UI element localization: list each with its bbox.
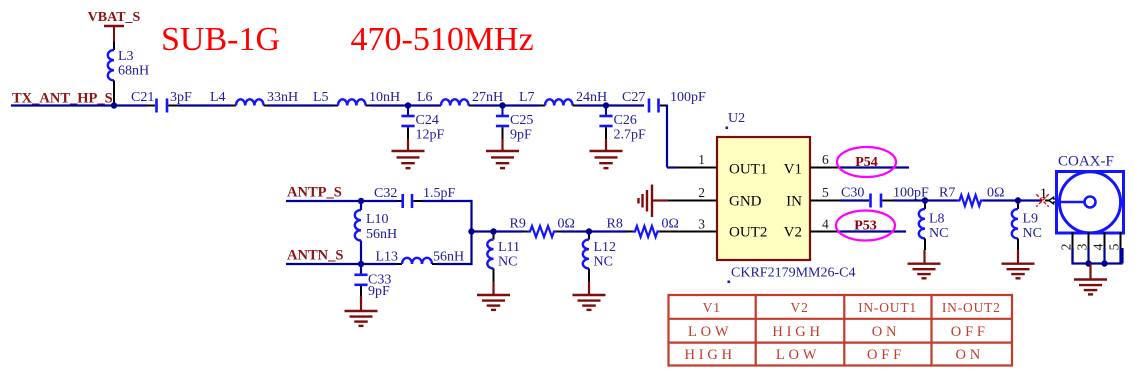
wire pin2 — [668, 200, 717, 202]
wire — [113, 42, 115, 50]
svg-text:VBAT_S: VBAT_S — [88, 10, 141, 25]
junction node C25 — [499, 102, 505, 108]
svg-text:SUB-1G: SUB-1G — [161, 21, 280, 58]
wire — [178, 104, 231, 106]
svg-text:L5: L5 — [313, 90, 329, 105]
svg-text:L9: L9 — [1023, 212, 1039, 227]
inductor L9 NC — [1017, 201, 1019, 205]
wire pin5 — [810, 200, 840, 202]
svg-text:470-510MHz: 470-510MHz — [351, 21, 534, 58]
svg-text:12pF: 12pF — [416, 127, 445, 142]
svg-text:NC: NC — [929, 226, 948, 241]
svg-text:68nH: 68nH — [118, 64, 149, 79]
coax pin 3 — [1088, 232, 1090, 248]
inductor L10 56nH — [360, 201, 362, 210]
wire — [473, 104, 540, 106]
junction ANTN node — [358, 261, 364, 267]
svg-text:0Ω: 0Ω — [558, 217, 575, 232]
svg-text:5: 5 — [822, 185, 829, 200]
svg-text:V1: V1 — [784, 162, 802, 178]
capacitor C25 — [496, 115, 509, 118]
svg-text:4: 4 — [1091, 243, 1106, 250]
svg-text:0Ω: 0Ω — [662, 217, 679, 232]
ground L9 — [1017, 250, 1019, 264]
ground L12 — [588, 282, 590, 296]
svg-text:C32: C32 — [374, 186, 397, 201]
ground coax — [1089, 264, 1091, 280]
inductor L8 NC — [924, 201, 926, 205]
wire — [605, 106, 607, 116]
junction L8 node — [922, 197, 928, 203]
op-amp U2 CKRF2179MM26-C4 — [717, 137, 810, 260]
svg-text:C25: C25 — [510, 113, 533, 128]
svg-text:100pF: 100pF — [670, 90, 706, 105]
svg-text:P54: P54 — [855, 155, 878, 170]
no-ERC marker (red X) — [1036, 194, 1048, 206]
svg-text:C24: C24 — [416, 113, 439, 128]
wire — [407, 106, 409, 116]
svg-text:27nH: 27nH — [472, 90, 503, 105]
svg-text:C27: C27 — [622, 90, 645, 105]
svg-text:L12: L12 — [594, 240, 617, 255]
svg-text:5: 5 — [1107, 243, 1122, 250]
table V1/V2 truth table — [669, 295, 1013, 366]
ground L8 — [923, 250, 925, 264]
wire pin4 — [810, 231, 840, 233]
svg-text:ANTN_S: ANTN_S — [287, 248, 343, 264]
svg-text:2.7pF: 2.7pF — [614, 127, 647, 142]
svg-text:R8: R8 — [607, 217, 623, 232]
svg-text:NC: NC — [1023, 226, 1042, 241]
svg-text:IN: IN — [786, 194, 802, 210]
svg-text:OFF: OFF — [951, 324, 989, 340]
wire — [502, 106, 504, 116]
svg-text:L11: L11 — [498, 240, 520, 255]
svg-text:10nH: 10nH — [369, 90, 400, 105]
svg-text:COAX-F: COAX-F — [1058, 154, 1114, 170]
capacitor C24 — [401, 115, 414, 118]
wire ANTP — [286, 200, 361, 202]
svg-text:C26: C26 — [614, 113, 637, 128]
svg-text:IN-OUT2: IN-OUT2 — [942, 300, 1001, 315]
svg-text:4: 4 — [822, 217, 829, 232]
svg-text:P53: P53 — [854, 219, 877, 234]
junction branch/R9 — [468, 228, 474, 234]
junction L9 node — [1015, 197, 1021, 203]
wire vertical branch — [470, 200, 472, 265]
svg-text:56nH: 56nH — [433, 250, 464, 265]
coax pin 5 — [1120, 232, 1122, 248]
svg-text:OUT2: OUT2 — [729, 225, 767, 241]
svg-text:V2: V2 — [784, 225, 802, 241]
junction node C26 — [603, 102, 609, 108]
wire C32 out — [422, 200, 472, 202]
junction VBAT/TX node — [111, 102, 117, 108]
svg-text:V2: V2 — [791, 300, 809, 315]
svg-text:R9: R9 — [510, 217, 526, 232]
wire branch to R9 — [472, 230, 523, 232]
svg-text:L6: L6 — [417, 90, 433, 105]
svg-text:L8: L8 — [929, 212, 945, 227]
svg-text:9pF: 9pF — [368, 284, 390, 299]
junction L12 node — [586, 228, 592, 234]
svg-text:R7: R7 — [939, 186, 955, 201]
svg-text:0Ω: 0Ω — [987, 186, 1004, 201]
junction coax pin3 — [1085, 260, 1091, 266]
wire — [577, 104, 644, 106]
junction node C24 — [405, 102, 411, 108]
svg-text:56nH: 56nH — [366, 227, 397, 242]
svg-text:ON: ON — [956, 347, 985, 363]
wire ANTN — [286, 263, 361, 265]
inductor L12 NC — [588, 232, 590, 236]
svg-text:ON: ON — [872, 324, 901, 340]
junction ANTP node — [358, 198, 364, 204]
svg-text:33nH: 33nH — [267, 90, 298, 105]
inductor L11 NC — [492, 232, 494, 236]
junction L11 node — [490, 228, 496, 234]
coax pin 2 — [1072, 232, 1074, 248]
svg-text:L10: L10 — [366, 212, 389, 227]
svg-text:2: 2 — [1059, 244, 1074, 251]
svg-text:L7: L7 — [519, 90, 535, 105]
svg-text:3: 3 — [698, 217, 705, 232]
ground C33 — [360, 296, 362, 311]
svg-text:OUT1: OUT1 — [729, 162, 767, 178]
ground — [407, 139, 409, 151]
capacitor C26 — [599, 115, 612, 118]
svg-text:C30: C30 — [841, 186, 864, 201]
svg-text:NC: NC — [594, 255, 613, 270]
svg-text:GND: GND — [729, 194, 762, 210]
svg-text:3pF: 3pF — [170, 90, 192, 105]
svg-text:C21: C21 — [131, 90, 154, 105]
coax pin1 arrow — [1045, 200, 1049, 202]
capacitor C32 1.5pF — [361, 200, 397, 202]
port P53 (ellipse) — [836, 211, 895, 241]
coax pin 4 — [1104, 232, 1106, 248]
wire — [370, 104, 408, 106]
svg-text:24nH: 24nH — [576, 90, 607, 105]
svg-text:HIGH: HIGH — [772, 324, 823, 340]
svg-text:L4: L4 — [210, 90, 226, 105]
wire — [561, 230, 628, 232]
wire TX_ANT_HP_S — [11, 104, 147, 106]
svg-text:V1: V1 — [703, 300, 721, 315]
svg-text:OFF: OFF — [867, 347, 905, 363]
wire pin6 — [810, 167, 840, 169]
svg-text:LOW: LOW — [776, 347, 820, 363]
svg-text:HIGH: HIGH — [684, 347, 735, 363]
ground — [501, 139, 503, 151]
svg-text:L3: L3 — [118, 49, 134, 64]
wire coax gnd bus — [1072, 262, 1123, 264]
wire — [268, 104, 333, 106]
svg-text:LOW: LOW — [688, 324, 732, 340]
capacitor C33 9pF — [360, 264, 362, 274]
ground L11 — [492, 282, 494, 296]
svg-text:U2: U2 — [728, 111, 745, 126]
wire to COAX — [1018, 199, 1042, 201]
svg-text:2: 2 — [698, 185, 705, 200]
ground — [605, 139, 607, 151]
svg-text:6: 6 — [822, 152, 829, 167]
svg-text:CKRF2179MM26-C4: CKRF2179MM26-C4 — [731, 266, 855, 281]
wire C27 to pin1 — [660, 105, 667, 107]
svg-text:1: 1 — [698, 152, 705, 167]
ground pin2 (sideways) — [651, 185, 653, 218]
svg-text:IN-OUT1: IN-OUT1 — [858, 300, 917, 315]
svg-text:NC: NC — [498, 255, 517, 270]
svg-text:9pF: 9pF — [510, 127, 532, 142]
svg-text:TX_ANT_HP_S: TX_ANT_HP_S — [12, 91, 113, 107]
svg-text:1.5pF: 1.5pF — [423, 186, 456, 201]
junction coax pin4 — [1101, 260, 1107, 266]
svg-text:3: 3 — [1075, 243, 1090, 250]
wire — [893, 199, 957, 201]
svg-text:ANTP_S: ANTP_S — [287, 185, 342, 201]
inductor L3 — [108, 50, 114, 81]
port P54 (ellipse) — [837, 147, 896, 177]
svg-text:L13: L13 — [376, 250, 399, 265]
